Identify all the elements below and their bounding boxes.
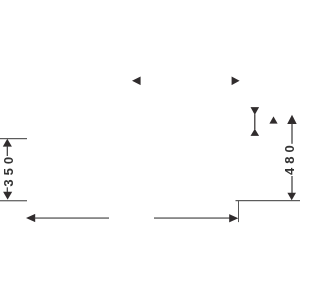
dimension 480: lower stem xyxy=(291,176,292,194)
arrow left (top swivel indicator) xyxy=(132,77,141,86)
svg-text:480: 480 xyxy=(282,141,297,175)
extension line at x=238.5 xyxy=(238,200,239,222)
svg-text:350: 350 xyxy=(1,153,16,187)
adjuster arrow up xyxy=(251,129,260,136)
width dimension: left line segment xyxy=(34,218,109,219)
dimension 350: bottom arrowhead xyxy=(3,192,12,200)
dimension 350: top tick xyxy=(0,138,27,139)
dimension 480: bottom arrowhead xyxy=(287,193,296,200)
dimension 350: top arrowhead xyxy=(3,139,12,147)
width dimension: left arrowhead xyxy=(26,214,35,222)
dimension 480: upper stem xyxy=(291,123,292,144)
width dimension: right line segment xyxy=(154,218,230,219)
width dimension: right arrowhead xyxy=(229,214,238,222)
dimension 350: lower stem xyxy=(7,187,8,192)
dimension 480: top arrowhead xyxy=(287,115,297,124)
adjuster arrow down xyxy=(251,107,260,115)
arrow right (top swivel indicator) xyxy=(232,77,240,86)
dimension 350: bottom tick xyxy=(0,200,27,201)
dimension 350: upper stem xyxy=(7,146,8,156)
small arrow up (middle) xyxy=(269,116,277,123)
adjuster stem xyxy=(254,114,255,129)
base line right xyxy=(236,200,301,201)
